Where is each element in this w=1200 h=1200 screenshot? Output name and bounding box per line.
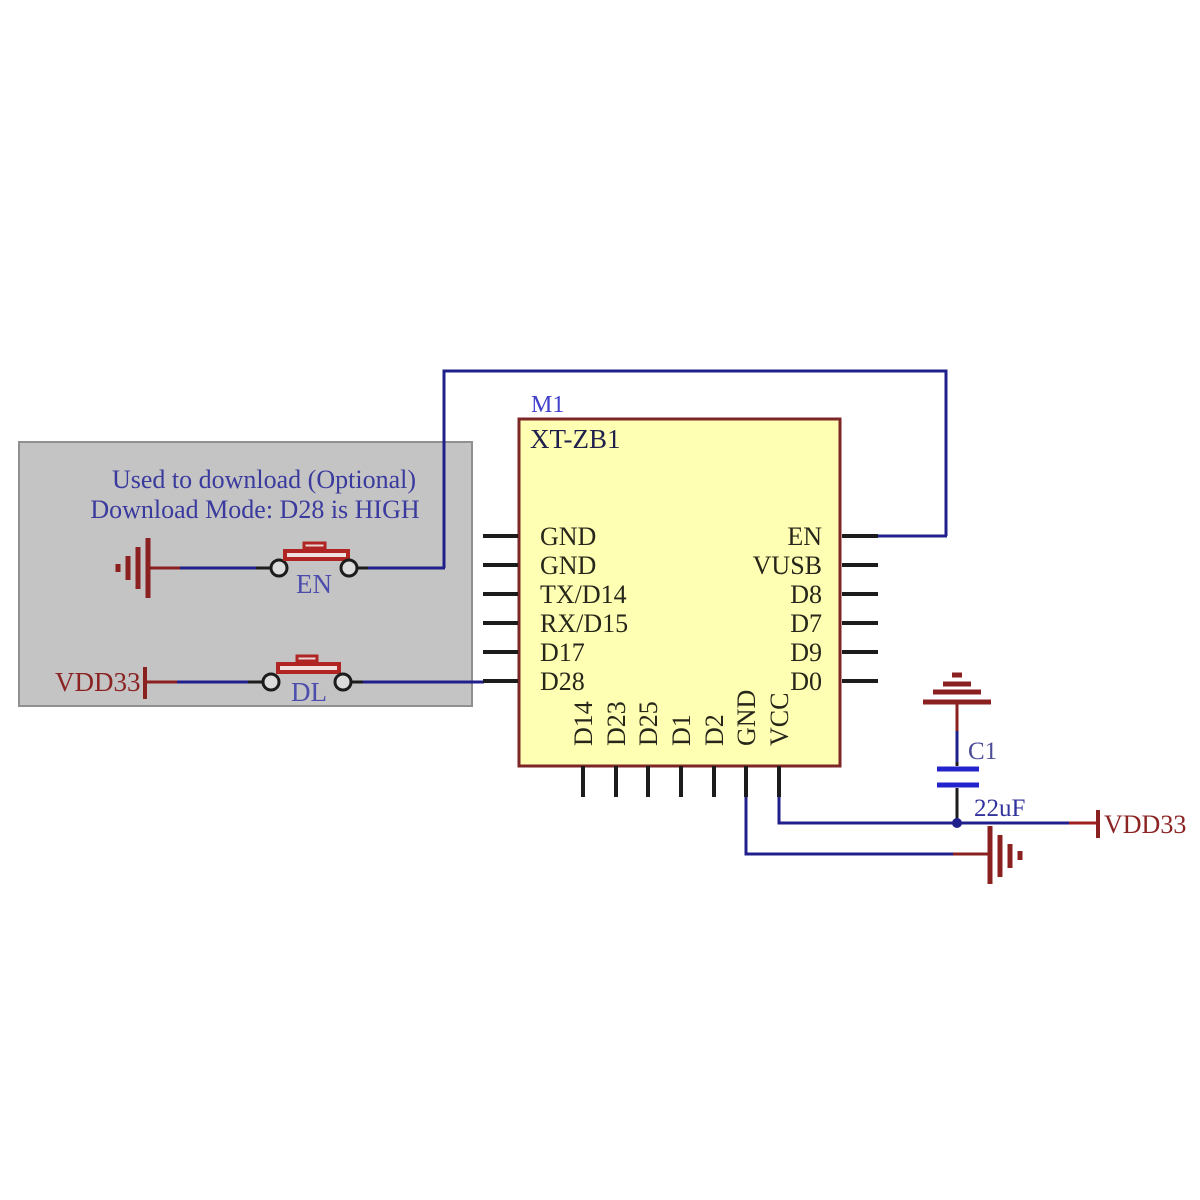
pushbutton DL pin left (black) [248, 681, 263, 684]
module M1 body box [519, 419, 840, 766]
pin stub D9 [842, 650, 878, 654]
svg-text:D28: D28 [540, 667, 585, 696]
svg-text:DL: DL [291, 677, 327, 707]
capacitor C1 plate bottom [937, 783, 979, 788]
svg-text:D23: D23 [602, 701, 631, 746]
pin stub D1 (bottom) [679, 766, 683, 797]
capacitor C1 plate top [937, 767, 979, 772]
pin stub D25 (bottom) [646, 766, 650, 797]
junction dot C1/VDD33 [952, 818, 962, 828]
pushbutton EN pin right (black) [357, 567, 368, 570]
svg-text:D17: D17 [540, 638, 585, 667]
svg-text:D1: D1 [667, 714, 696, 746]
svg-text:RX/D15: RX/D15 [540, 609, 628, 638]
pushbutton DL body [278, 664, 339, 672]
gray annotation box [19, 442, 472, 706]
svg-text:GND: GND [540, 522, 596, 551]
pin stub VCC (bottom) [777, 766, 781, 797]
svg-text:D2: D2 [700, 714, 729, 746]
pushbutton EN contact circle right [341, 560, 357, 576]
pin stub GND (bottom) [744, 766, 748, 797]
pushbutton EN contact circle left [271, 560, 287, 576]
pushbutton EN body [285, 551, 348, 559]
pin stub EN (right) [842, 534, 878, 538]
svg-text:VCC: VCC [765, 693, 794, 746]
svg-text:EN: EN [787, 522, 822, 551]
pushbutton DL contact circle right [335, 674, 351, 690]
pin stub TX/D14 [483, 592, 518, 596]
capacitor C1 pin bottom (black) [956, 788, 959, 818]
svg-text:VDD33: VDD33 [55, 667, 141, 697]
pin stub D8 [842, 592, 878, 596]
svg-text:C1: C1 [968, 738, 997, 765]
wire top net EN [444, 371, 946, 568]
pin stub GND (left 2) [483, 563, 518, 567]
wire to VDD33 port (red) [1069, 822, 1098, 825]
wire EN row left (blue) [180, 567, 256, 570]
port VDD33 left bar [143, 667, 147, 699]
pushbutton EN pin left (black) [256, 567, 271, 570]
port VDD33 right bar [1096, 810, 1100, 838]
svg-text:GND: GND [732, 690, 761, 746]
ground symbol right (pointing right) [990, 826, 1020, 884]
pin stub RX/D15 [483, 621, 518, 625]
svg-text:D8: D8 [790, 580, 822, 609]
svg-text:Download Mode: D28 is HIGH: Download Mode: D28 is HIGH [90, 495, 420, 524]
wire cap top (blue) [956, 731, 959, 762]
wire EN row right (blue) [368, 567, 445, 570]
pin stub D17 [483, 650, 518, 654]
pin stub D7 [842, 621, 878, 625]
svg-text:XT-ZB1: XT-ZB1 [530, 424, 621, 454]
pin stub D28 [483, 679, 518, 683]
wire EN pin to net (blue) [878, 535, 947, 538]
wire DL row right to D28 (blue) [363, 681, 484, 684]
wire VCC net (blue) [779, 797, 1069, 823]
wire cap bottom (blue) [956, 818, 959, 823]
svg-text:VUSB: VUSB [753, 551, 822, 580]
pin stub D14 (bottom) [581, 766, 585, 797]
svg-text:TX/D14: TX/D14 [540, 580, 627, 609]
ground symbol top (pointing up) [923, 675, 991, 702]
svg-text:Used to download (Optional): Used to download (Optional) [112, 465, 416, 494]
pin stub D2 (bottom) [712, 766, 716, 797]
svg-text:D7: D7 [790, 609, 822, 638]
pin stub D0 [842, 679, 878, 683]
pushbutton DL pin right (black) [351, 681, 363, 684]
pin stub VUSB [842, 563, 878, 567]
svg-text:22uF: 22uF [974, 795, 1025, 822]
wire GND to ground (red) [953, 853, 990, 856]
pushbutton DL contact circle left [263, 674, 279, 690]
pin stub D23 (bottom) [614, 766, 618, 797]
svg-text:D9: D9 [790, 638, 822, 667]
svg-text:M1: M1 [531, 392, 564, 418]
svg-text:D0: D0 [790, 667, 822, 696]
wire ground stub EN row (red) [148, 567, 180, 570]
wire GND net (blue) [746, 797, 953, 854]
wire DL row left (blue) [177, 681, 248, 684]
pushbutton EN actuator [304, 543, 325, 548]
svg-text:D25: D25 [634, 701, 663, 746]
pushbutton DL actuator [297, 656, 317, 661]
svg-text:EN: EN [296, 569, 332, 599]
pin stub GND (left 1) [483, 534, 518, 538]
svg-text:VDD33: VDD33 [1104, 810, 1186, 839]
wire ground to cap (red) [956, 702, 959, 731]
capacitor C1 pin top (black) [956, 762, 959, 766]
ground symbol left [118, 538, 148, 598]
wire VDD33 stub DL row (red) [145, 681, 177, 684]
svg-text:D14: D14 [569, 701, 598, 746]
svg-text:GND: GND [540, 551, 596, 580]
